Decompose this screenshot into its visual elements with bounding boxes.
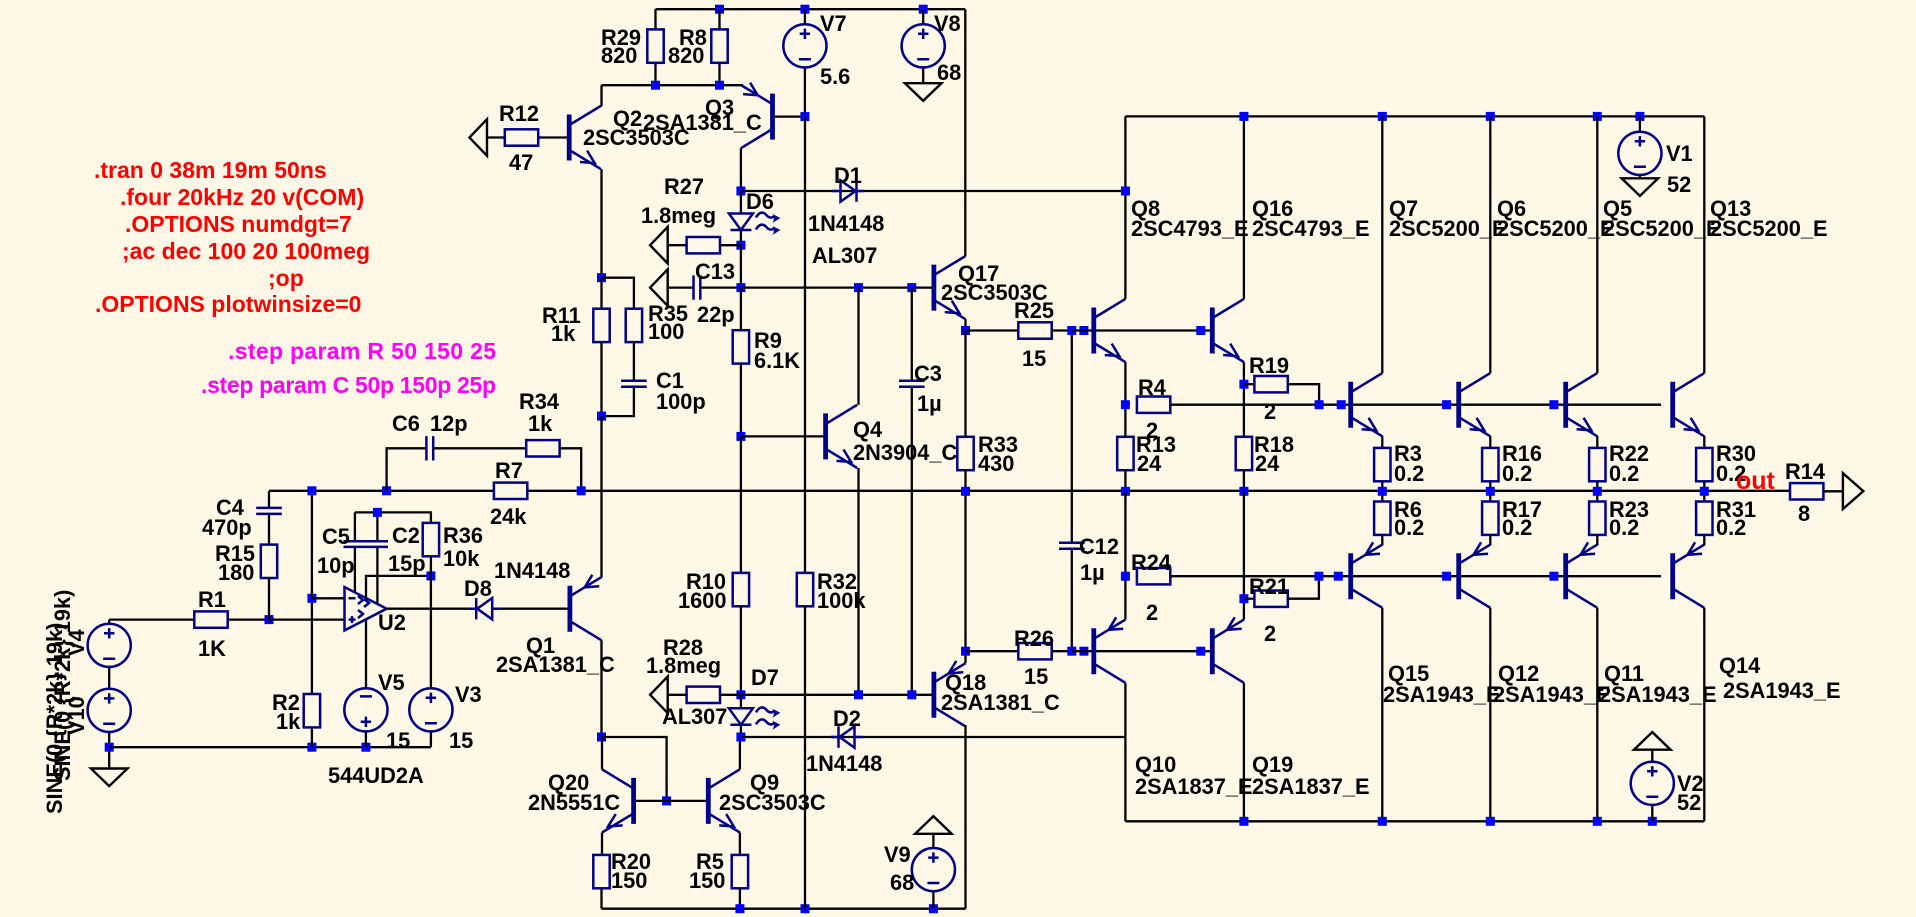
- wire Q1 collector down: [600, 640, 602, 737]
- svg-text:430: 430: [978, 451, 1014, 476]
- svg-text:2SA1837_E: 2SA1837_E: [1135, 774, 1253, 799]
- voltage source V5 (minus top): [344, 670, 410, 753]
- transistor Q18 2SA1381_C pnp: [934, 661, 1060, 727]
- node rail inv branch: [307, 486, 316, 495]
- resistor R15 180: [215, 541, 277, 620]
- voltage source V2 52: [1631, 750, 1704, 822]
- svg-text:out: out: [1736, 467, 1776, 495]
- svg-text:1k: 1k: [551, 321, 576, 346]
- svg-text:AL307: AL307: [662, 704, 727, 729]
- resistor R31 0.2: [1696, 491, 1756, 545]
- wire Q7 emitter to R3: [1381, 435, 1383, 438]
- svg-text:2SC4793_E: 2SC4793_E: [1252, 216, 1370, 241]
- wire Q10 collector down: [1124, 683, 1126, 822]
- svg-text:Q4: Q4: [853, 417, 882, 442]
- node top rail V7 junction: [800, 5, 809, 14]
- wire Q17 emitter down to R25 node: [964, 319, 966, 330]
- wire out rail main: [269, 490, 1790, 492]
- svg-text:0.2: 0.2: [1609, 461, 1639, 486]
- wire V7 vertical down to R32: [804, 117, 806, 573]
- wire Q8 collector column: [1124, 116, 1126, 299]
- node rail R3 junction: [1378, 487, 1387, 496]
- svg-text:R19: R19: [1249, 353, 1289, 378]
- node rail R33 junction: [1121, 487, 1130, 496]
- transistor Q14 2SA1943_E pnp: [1673, 542, 1841, 703]
- svg-text:R12: R12: [499, 101, 539, 126]
- wire C13 node to Q17 base: [741, 286, 934, 288]
- wire D1 horizontal: [741, 190, 1126, 192]
- svg-text:68: 68: [937, 60, 961, 85]
- wire Q13 collector: [1703, 116, 1705, 373]
- svg-text:.tran 0 38m 19m 50ns: .tran 0 38m 19m 50ns: [94, 157, 327, 183]
- node Q5 base pin junction: [1549, 400, 1558, 409]
- capacitor C6 12p: [387, 411, 527, 491]
- svg-text:10k: 10k: [443, 546, 480, 571]
- svg-text:1µ: 1µ: [917, 391, 942, 416]
- svg-text:820: 820: [601, 43, 637, 68]
- node rail2 Q7 junction: [1378, 112, 1387, 121]
- wire Q16 emitter to R18: [1243, 362, 1245, 437]
- node rail2 V1 junction: [1635, 112, 1644, 121]
- op-amp U2 544UD2A: [328, 587, 424, 788]
- wire D7 node to D2 to Q10 collector: [741, 736, 1126, 738]
- wire Q2 emitter down: [600, 169, 602, 278]
- wire D6 bottom to C13 node: [740, 245, 742, 287]
- svg-text:V5: V5: [378, 670, 405, 695]
- svg-text:R21: R21: [1249, 574, 1289, 599]
- wire Q9 collector up to D7 node: [739, 737, 741, 769]
- wire base link Q20 Q9: [634, 800, 709, 802]
- resistor R21 2: [1244, 574, 1319, 646]
- svg-text:1µ: 1µ: [1080, 560, 1105, 585]
- node R21 left junction: [1239, 594, 1248, 603]
- svg-text:R1: R1: [198, 587, 226, 612]
- svg-text:D6: D6: [746, 189, 774, 214]
- svg-text:1k: 1k: [276, 709, 301, 734]
- wire Q4 base: [741, 435, 826, 437]
- diode D2 1N4148: [806, 706, 882, 776]
- resistor R35 100: [626, 301, 688, 380]
- svg-text:V10: V10: [64, 696, 89, 735]
- wire Q6 collector: [1489, 116, 1491, 373]
- resistor R33 430: [957, 432, 1018, 491]
- wire U2 V- pin down to V5: [365, 620, 367, 689]
- wire C2 branch: [376, 512, 378, 604]
- svg-text:1600: 1600: [678, 588, 727, 613]
- transistor Q19 2SA1837_E pnp: [1212, 617, 1369, 799]
- directive text block: [94, 157, 496, 398]
- node rail R16 junction: [1486, 487, 1495, 496]
- node Q17 emitter / R25 left junction: [961, 326, 970, 335]
- resistor R4 2: [1137, 375, 1661, 443]
- transistor Q8 2SC4793_E npn: [1094, 196, 1249, 362]
- voltage source V3: [409, 576, 481, 753]
- node Q6 base pin junction: [1442, 400, 1451, 409]
- wire under R29/R8 to Q3 emitter: [602, 65, 744, 85]
- svg-text:C13: C13: [695, 259, 735, 284]
- resistor R8: [668, 9, 728, 68]
- wire Q15 collector down: [1381, 608, 1383, 822]
- label V4 V10 rotated: [42, 590, 89, 814]
- svg-text:D1: D1: [834, 163, 862, 188]
- capacitor C12 1u: [1059, 331, 1119, 652]
- ground under V1: [1622, 178, 1659, 196]
- resistor R3 0.2: [1374, 436, 1424, 491]
- node Q4 collector junction on C13 wire: [854, 283, 863, 292]
- resistor R18 24: [1236, 432, 1294, 491]
- svg-text:C3: C3: [914, 361, 942, 386]
- node C3 bottom on base wire: [907, 690, 916, 699]
- resistor R20 150: [593, 833, 651, 909]
- wire negative rail bottom: [602, 908, 966, 910]
- node Q7 base pin junction: [1337, 400, 1346, 409]
- svg-text:52: 52: [1667, 172, 1691, 197]
- wire U2 V+ pin: [366, 576, 431, 598]
- svg-text:820: 820: [668, 43, 704, 68]
- resistor R22 0.2: [1589, 436, 1649, 491]
- transistor Q13 2SC5200_E npn: [1673, 196, 1828, 436]
- wire R25 node down through R33: [964, 331, 966, 437]
- node D1 end on Q8 column: [1121, 187, 1130, 196]
- ground above V2: [1634, 732, 1671, 750]
- node Q16 base pin junction: [1196, 326, 1205, 335]
- node R2 bottom junction: [307, 743, 316, 752]
- node Q18 emitter / R26 junction: [961, 647, 970, 656]
- transistor Q9 2SC3503C npn: [708, 769, 826, 832]
- node Q4 emitter on base wire: [854, 690, 863, 699]
- wire feedback node down: [311, 491, 313, 599]
- svg-text:10p: 10p: [317, 553, 355, 578]
- wire Q8 emitter to R13: [1124, 362, 1126, 437]
- transistor Q7 2SC5200_E npn: [1351, 196, 1507, 436]
- resistor R24 2: [1131, 550, 1661, 625]
- svg-text:2SC3503C: 2SC3503C: [719, 790, 826, 815]
- svg-text:1.8meg: 1.8meg: [646, 653, 721, 678]
- voltage source V7: [783, 9, 850, 116]
- node Q15 base pin junction: [1334, 572, 1343, 581]
- transistor Q4 2N3904_C npn: [826, 405, 958, 468]
- svg-text:2SA1943_E: 2SA1943_E: [1493, 682, 1611, 707]
- svg-text:2N5551C: 2N5551C: [528, 790, 620, 815]
- resistor R6 0.2: [1374, 491, 1424, 545]
- svg-text:1k: 1k: [528, 411, 553, 436]
- svg-text:0.2: 0.2: [1502, 515, 1532, 540]
- wire Q16 collector column: [1243, 116, 1245, 299]
- resistor R16 0.2: [1482, 436, 1542, 491]
- port out arrow: [1843, 473, 1863, 509]
- node R19 left junction: [1239, 380, 1248, 389]
- wire Q11 collector down: [1596, 608, 1598, 822]
- node R24 left junction: [1121, 572, 1130, 581]
- svg-text:Q14: Q14: [1719, 653, 1760, 678]
- svg-text:5.6: 5.6: [820, 64, 850, 89]
- svg-text:180: 180: [218, 560, 254, 585]
- resistor R19 2: [1244, 353, 1319, 424]
- svg-text:C2: C2: [392, 523, 420, 548]
- node Q10 base pin junction: [1079, 647, 1088, 656]
- node C3 top junction on C13 wire: [907, 283, 916, 292]
- wire lower driver base row: [1072, 650, 1213, 652]
- svg-text:8: 8: [1798, 501, 1810, 526]
- resistor R34 1k: [519, 389, 581, 491]
- resistor R12: [487, 101, 569, 175]
- node R36 bottom junction: [426, 571, 435, 580]
- svg-text:.OPTIONS plotwinsize=0: .OPTIONS plotwinsize=0: [95, 291, 361, 317]
- svg-text:0.2: 0.2: [1502, 461, 1532, 486]
- node C12 top junction: [1067, 326, 1076, 335]
- resistor R1 1K: [194, 587, 269, 661]
- svg-text:24: 24: [1255, 451, 1279, 476]
- svg-text:V4: V4: [64, 629, 89, 656]
- wire top rail right drop to Q17 collector: [964, 9, 966, 256]
- svg-text:.OPTIONS numdgt=7: .OPTIONS numdgt=7: [125, 211, 352, 237]
- node rail R18 junction: [1239, 487, 1248, 496]
- resistor R7 24k (in rail): [490, 458, 527, 529]
- ground above V9: [915, 816, 952, 834]
- node top rail V8 junction: [919, 5, 928, 14]
- node R8 bottom: [715, 81, 724, 90]
- node R9 bottom / Q4 base junction: [736, 432, 745, 441]
- capacitor C1 100p: [602, 368, 706, 416]
- svg-text:24k: 24k: [490, 504, 527, 529]
- node C13 right junction: [736, 283, 745, 292]
- transistor Q10 2SA1837_E pnp: [1094, 617, 1253, 799]
- svg-text:C12: C12: [1079, 534, 1119, 559]
- resistor R29: [601, 9, 664, 68]
- svg-text:V9: V9: [884, 842, 911, 867]
- resistor R30 0.2: [1696, 436, 1756, 491]
- node rail R30 junction: [1700, 487, 1709, 496]
- node rail2 Q5 junction: [1593, 112, 1602, 121]
- svg-text:V8: V8: [934, 11, 961, 36]
- svg-text:22p: 22p: [697, 302, 735, 327]
- node in- junction: [307, 594, 316, 603]
- svg-text:U2: U2: [378, 610, 406, 635]
- diode D8 1N4148: [464, 558, 570, 619]
- svg-text:1N4148: 1N4148: [806, 751, 882, 776]
- wire Q18 collector down to negative rail: [964, 725, 966, 909]
- node V9 bottom: [929, 904, 938, 913]
- transistor Q11 2SA1943_E pnp: [1566, 542, 1717, 707]
- wire Q15 emitter: [1381, 543, 1383, 546]
- wire Q3 base to V7 line: [773, 115, 806, 117]
- node R10 bottom / D7 anode / R28 junction: [736, 690, 745, 699]
- svg-text:0.2: 0.2: [1394, 461, 1424, 486]
- wire R11/R35 top jog: [602, 278, 634, 309]
- svg-text:1N4148: 1N4148: [494, 558, 570, 583]
- transistor Q2 2SC3503C npn: [569, 106, 690, 169]
- capacitor C4 470p: [202, 491, 282, 545]
- wire Q4 emitter down to Q18 base wire (crosses out rail): [857, 468, 859, 695]
- node R11 bottom / C1 junction: [597, 412, 606, 421]
- ground input: [91, 747, 128, 786]
- node R21 riser junction: [1314, 572, 1323, 581]
- svg-text:24: 24: [1137, 451, 1161, 476]
- svg-text:C6: C6: [392, 411, 420, 436]
- svg-text:R36: R36: [443, 523, 483, 548]
- svg-text:R26: R26: [1014, 626, 1054, 651]
- wire R1 node to opamp in+: [269, 618, 345, 620]
- node R19 riser junction: [1315, 400, 1324, 409]
- svg-text:2: 2: [1264, 399, 1276, 424]
- transistor Q15 2SA1943_E pnp: [1351, 542, 1501, 707]
- resistor R26 15: [966, 626, 1072, 689]
- svg-text:150: 150: [611, 868, 647, 893]
- node nrail Q19 junction: [1239, 817, 1248, 826]
- voltage source V1 52: [1618, 116, 1692, 197]
- resistor R28 1.8meg: [646, 635, 741, 703]
- wire driver base row top: [1072, 329, 1213, 331]
- svg-text:2SC4793_E: 2SC4793_E: [1131, 216, 1249, 241]
- svg-text:47: 47: [509, 150, 533, 175]
- node D6 top junction: [736, 187, 745, 196]
- svg-text:15p: 15p: [388, 551, 426, 576]
- svg-text:.four 20kHz 20 v(COM): .four 20kHz 20 v(COM): [120, 184, 364, 210]
- svg-text:100k: 100k: [817, 588, 866, 613]
- svg-text:15: 15: [1024, 664, 1048, 689]
- wire R11 node down to Q1 emitter (crosses out rail): [600, 416, 602, 577]
- svg-text:2SA1837_E: 2SA1837_E: [1252, 774, 1370, 799]
- svg-text:C5: C5: [322, 524, 350, 549]
- svg-text:2: 2: [1146, 600, 1158, 625]
- svg-text:6.1K: 6.1K: [754, 348, 800, 373]
- svg-text:470p: 470p: [202, 515, 252, 540]
- wire bottom ground rail: [109, 746, 431, 748]
- ground at C13: [650, 269, 668, 306]
- diode D1 1N4148: [808, 163, 884, 268]
- voltage source V8: [902, 9, 962, 85]
- node nrail Q12 junction: [1486, 817, 1495, 826]
- transistor Q5 2SC5200_E npn: [1566, 196, 1721, 436]
- svg-text:100p: 100p: [656, 389, 706, 414]
- wire Q20 collector up: [601, 737, 603, 769]
- svg-text:;op: ;op: [268, 265, 304, 291]
- svg-text:R25: R25: [1014, 298, 1054, 323]
- svg-text:R14: R14: [1785, 459, 1825, 484]
- wire in- to opamp: [312, 597, 345, 599]
- node R34 bottom on rail: [577, 486, 586, 495]
- ground at R12: [469, 119, 487, 156]
- node Q1 collector / mirror junction: [597, 733, 606, 742]
- capacitor C5 C2 plates: [317, 523, 426, 578]
- node Q8 base pin junction: [1079, 326, 1088, 335]
- node R29 bottom: [651, 81, 660, 90]
- transistor Q6 2SC5200_E npn: [1459, 196, 1615, 436]
- wire top cap node: [355, 512, 431, 523]
- node Q3 base on V7 vertical: [800, 112, 809, 121]
- node D7 cathode junction: [736, 733, 745, 742]
- svg-text:1K: 1K: [198, 636, 226, 661]
- svg-text:0.2: 0.2: [1609, 515, 1639, 540]
- svg-text:R4: R4: [1138, 375, 1166, 400]
- transistor Q17 2SC3503C npn: [934, 256, 1048, 319]
- svg-text:12p: 12p: [430, 411, 468, 436]
- LED D6 AL307: [729, 189, 781, 245]
- wire Q18 base from R28 node: [741, 694, 934, 696]
- transistor Q16 2SC4793_E npn: [1212, 196, 1369, 362]
- transistor Q1 2SA1381_C pnp: [496, 575, 615, 677]
- node V10 bottom: [105, 743, 114, 752]
- svg-text:2SA1381_C: 2SA1381_C: [643, 110, 762, 135]
- svg-text:2: 2: [1146, 418, 1158, 443]
- svg-text:2SC5200_E: 2SC5200_E: [1710, 216, 1828, 241]
- svg-text:R7: R7: [495, 458, 523, 483]
- wire V4 to R1: [109, 618, 194, 620]
- svg-text:544UD2A: 544UD2A: [328, 763, 424, 788]
- wire Q18 emitter up to rail: [964, 491, 966, 663]
- node nrail Q15 junction: [1378, 817, 1387, 826]
- wire top rail 2: [1125, 115, 1704, 117]
- svg-text:D7: D7: [751, 665, 779, 690]
- svg-text:V3: V3: [455, 682, 482, 707]
- svg-text:R24: R24: [1131, 550, 1171, 575]
- svg-text:15: 15: [386, 728, 410, 753]
- node R5 bottom: [735, 904, 744, 913]
- resistor R23 0.2: [1589, 491, 1649, 545]
- node rail2 Q6 junction: [1486, 112, 1495, 121]
- node V5 bottom junction: [361, 743, 370, 752]
- node D6 bottom / R27 junction: [736, 241, 745, 250]
- node R1 / R15 junction: [265, 615, 274, 624]
- svg-text:2SC5200_E: 2SC5200_E: [1603, 216, 1721, 241]
- svg-text:.step param R 50 150 25: .step param R 50 150 25: [228, 338, 496, 364]
- resistor R9 6.1K: [733, 288, 801, 437]
- svg-text:AL307: AL307: [812, 243, 877, 268]
- svg-text:0.2: 0.2: [1394, 515, 1424, 540]
- node Q19 base pin junction: [1196, 647, 1205, 656]
- voltage source V4 SINE: [88, 620, 131, 689]
- ground under V8: [905, 83, 942, 101]
- wire Q19 collector down: [1243, 683, 1245, 822]
- resistor R14 8: [1785, 459, 1843, 526]
- node R4 left junction: [1121, 400, 1130, 409]
- resistor R17 0.2: [1482, 491, 1542, 545]
- transistor Q12 2SA1943_E pnp: [1459, 542, 1611, 707]
- svg-text:68: 68: [890, 870, 914, 895]
- node cap top junction: [373, 508, 382, 517]
- LED D7 AL307: [662, 665, 780, 737]
- svg-text:2SA1943_E: 2SA1943_E: [1383, 682, 1501, 707]
- wire Q10 emitter column: [1124, 491, 1126, 619]
- svg-text:100: 100: [648, 319, 684, 344]
- wire U2 output: [387, 608, 469, 610]
- node nrail Q11 junction: [1593, 817, 1602, 826]
- wire Q3 collector down to D6: [740, 148, 742, 191]
- wire mirror link to bases: [602, 737, 667, 801]
- svg-text:2N3904_C: 2N3904_C: [853, 440, 957, 465]
- capacitor C13 22p: [668, 259, 741, 327]
- voltage source V10: [88, 689, 131, 747]
- ground at R27: [650, 227, 668, 264]
- node Q12 base pin junction: [1442, 572, 1451, 581]
- svg-text:.step param C 50p 150p 25p: .step param C 50p 150p 25p: [201, 372, 496, 398]
- svg-text:2SA1381_C: 2SA1381_C: [496, 652, 615, 677]
- voltage source V9: [884, 834, 955, 909]
- svg-text:0.2: 0.2: [1716, 515, 1746, 540]
- resistor R25 15: [966, 298, 1072, 371]
- wire C5 branch: [354, 512, 356, 592]
- resistor R11 1k: [542, 278, 610, 416]
- capacitor C3 1u: [899, 288, 942, 695]
- svg-text:1.8meg: 1.8meg: [641, 203, 716, 228]
- svg-text:52: 52: [1677, 790, 1701, 815]
- svg-text:2SA1943_E: 2SA1943_E: [1599, 682, 1717, 707]
- svg-text:150: 150: [689, 868, 725, 893]
- svg-text:2: 2: [1264, 621, 1276, 646]
- ground at R28: [650, 677, 668, 714]
- wire Q5 collector: [1596, 116, 1598, 373]
- node Q20 Q9 base junction: [662, 796, 671, 805]
